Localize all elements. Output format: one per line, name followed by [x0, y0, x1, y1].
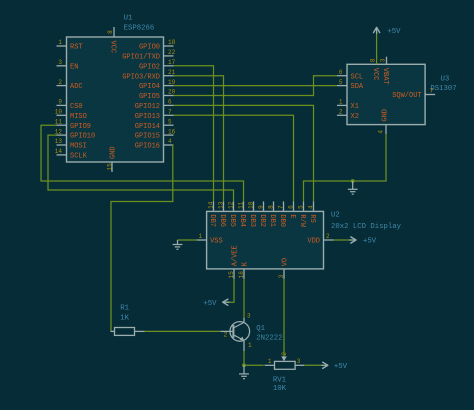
svg-text:RV1: RV1 — [273, 376, 287, 384]
wire GPIO5 to DS1307 SCL — [174, 76, 338, 96]
svg-text:9: 9 — [58, 99, 62, 106]
svg-text:2: 2 — [281, 352, 288, 356]
svg-text:4: 4 — [378, 130, 385, 134]
svg-text:MISO: MISO — [70, 113, 87, 121]
ground at U2 VSS — [173, 240, 183, 249]
svg-text:DB5: DB5 — [228, 214, 236, 227]
wire GPIO16 to R1 — [111, 145, 174, 331]
svg-text:6: 6 — [168, 99, 172, 106]
svg-text:VCC: VCC — [371, 68, 379, 81]
svg-text:SCLK: SCLK — [70, 153, 88, 161]
svg-text:GPIO4: GPIO4 — [139, 83, 160, 91]
svg-text:GPIO2: GPIO2 — [139, 63, 160, 71]
U3 pin 2 X2 — [337, 109, 359, 121]
svg-text:+5V: +5V — [363, 237, 377, 245]
svg-text:R1: R1 — [120, 305, 129, 313]
wire GPIO12 to LCD RS — [174, 105, 314, 201]
U2 pin 15 A/VEE — [228, 245, 240, 279]
U1 pin 18 GPIO0 — [139, 39, 176, 51]
svg-text:R/W: R/W — [298, 214, 306, 227]
svg-text:ADC: ADC — [70, 83, 83, 91]
U3 pin 6 SCL — [337, 69, 363, 81]
U1 pin 14 SCLK — [55, 148, 88, 160]
svg-text:DB3: DB3 — [248, 214, 256, 227]
svg-text:VDD: VDD — [307, 238, 320, 246]
resistor R1 — [111, 328, 145, 336]
svg-text:8: 8 — [107, 30, 114, 34]
U2 reference label — [331, 212, 402, 232]
svg-text:3: 3 — [58, 59, 62, 66]
wire GPIO10 to LCD DB5 — [48, 135, 234, 201]
svg-text:2N2222: 2N2222 — [256, 335, 282, 343]
U1 pin 2 ADC — [57, 79, 83, 91]
svg-text:DB6: DB6 — [218, 214, 226, 227]
svg-text:GPIO3/RXD: GPIO3/RXD — [122, 73, 160, 81]
svg-text:DB7: DB7 — [208, 214, 216, 227]
svg-text:GPIO9: GPIO9 — [70, 123, 91, 131]
svg-text:GND: GND — [110, 146, 118, 159]
U3 pin 5 SDA — [337, 79, 364, 91]
svg-text:13: 13 — [217, 201, 224, 209]
U1 pin 5 GPIO14 — [135, 118, 174, 130]
svg-text:2: 2 — [339, 109, 343, 116]
svg-text:11: 11 — [237, 201, 244, 209]
svg-text:19: 19 — [168, 79, 176, 86]
svg-text:8: 8 — [267, 205, 274, 209]
wire LCD K to Q1 collector — [243, 279, 245, 318]
U3 pin 8 VCC — [370, 58, 380, 80]
wire LCD VO to RV1 wiper — [283, 279, 285, 357]
U3 pin 1 X1 — [337, 99, 359, 111]
potentiometer RV1 — [265, 356, 305, 369]
svg-text:GPIO0: GPIO0 — [139, 44, 160, 52]
U1 pin 16 GPIO15 — [135, 128, 176, 140]
svg-text:13: 13 — [55, 138, 63, 145]
svg-text:3: 3 — [278, 274, 285, 278]
U3 pin 7 SQW/OUT — [392, 88, 435, 100]
svg-text:DB2: DB2 — [258, 214, 266, 227]
svg-text:VSS: VSS — [210, 238, 223, 246]
junction at Q1 emitter node — [242, 363, 246, 367]
svg-text:GPIO14: GPIO14 — [135, 123, 160, 131]
svg-text:1K: 1K — [120, 315, 129, 323]
svg-text:3: 3 — [247, 313, 251, 320]
Q1 value labels — [256, 325, 282, 343]
wire GPIO13 to LCD E — [174, 115, 294, 201]
Q1 pin numbers — [224, 313, 252, 350]
svg-text:GPIO12: GPIO12 — [135, 103, 160, 111]
U1 pin 7 GPIO13 — [135, 109, 174, 121]
U1 pin 17 GPIO2 — [139, 59, 176, 71]
U1 pin 8 VCC — [107, 27, 116, 53]
U1 pin 3 EN — [57, 59, 79, 71]
svg-text:SQW/OUT: SQW/OUT — [392, 92, 421, 100]
svg-text:GPIO16: GPIO16 — [135, 143, 160, 151]
+5V symbol at RV1 pin3 — [321, 362, 347, 371]
svg-text:9: 9 — [257, 205, 264, 209]
U1 pin 20 GPIO5 — [139, 89, 176, 101]
svg-text:+5V: +5V — [203, 300, 217, 308]
svg-text:RST: RST — [70, 44, 83, 52]
U3 reference label — [430, 76, 456, 94]
U2 pin 11 DB4 — [237, 201, 246, 227]
svg-text:CS0: CS0 — [70, 103, 83, 111]
ground on U3 GND / R/W net — [348, 181, 358, 194]
U1 reference label — [124, 15, 155, 33]
svg-text:A/VEE: A/VEE — [232, 245, 240, 266]
U2 pin 5 R/W — [297, 201, 306, 227]
svg-text:2: 2 — [326, 233, 330, 240]
svg-text:U1: U1 — [124, 15, 133, 23]
U2 pin 2 VDD — [307, 233, 333, 246]
svg-text:16: 16 — [238, 271, 245, 279]
svg-text:4: 4 — [168, 138, 172, 145]
wire junction to RV1 pin1 — [244, 364, 264, 366]
RV1 pin numbers — [268, 352, 301, 365]
svg-text:U2: U2 — [331, 212, 340, 220]
svg-text:RS: RS — [308, 214, 316, 222]
svg-text:2: 2 — [58, 79, 62, 86]
transistor Q1 2N2222 — [221, 318, 250, 351]
U2 pin 8 DB1 — [267, 201, 276, 227]
svg-text:4: 4 — [307, 205, 314, 209]
svg-text:10: 10 — [247, 201, 254, 209]
+5V symbol at U2 VDD — [350, 237, 377, 246]
+5V symbol at LCD A/VEE — [203, 299, 229, 308]
svg-text:17: 17 — [168, 59, 176, 66]
svg-text:GPIO1/TXD: GPIO1/TXD — [122, 54, 160, 62]
svg-text:U3: U3 — [441, 76, 450, 84]
wire GPIO3/RXD to LCD DB6 — [174, 76, 224, 202]
svg-text:1: 1 — [248, 342, 252, 349]
svg-text:VCC: VCC — [109, 41, 117, 54]
svg-text:EN: EN — [70, 63, 78, 71]
IC U2 20x2 LCD Display body — [207, 211, 324, 269]
svg-text:8: 8 — [370, 58, 377, 62]
wire GPIO2 to LCD DB7 — [174, 66, 214, 202]
svg-text:GPIO15: GPIO15 — [135, 133, 160, 141]
U1 pin 4 GPIO16 — [135, 138, 174, 150]
svg-text:+5V: +5V — [334, 363, 348, 371]
svg-text:MOSI: MOSI — [70, 143, 87, 151]
svg-text:X2: X2 — [351, 113, 359, 121]
svg-text:21: 21 — [168, 69, 176, 76]
svg-text:3: 3 — [379, 58, 386, 62]
U1 pin 9 CS0 — [57, 99, 83, 111]
U2 pin 9 DB2 — [257, 201, 266, 227]
svg-text:14: 14 — [55, 148, 63, 155]
svg-text:1: 1 — [198, 233, 202, 240]
RV1 value labels — [273, 376, 287, 393]
svg-text:E: E — [288, 214, 296, 218]
svg-text:20x2 LCD Display: 20x2 LCD Display — [331, 223, 402, 231]
svg-text:DB1: DB1 — [268, 214, 276, 227]
svg-text:12: 12 — [55, 128, 63, 135]
wire LCD A/VEE to +5V — [228, 279, 234, 302]
svg-text:6: 6 — [339, 69, 343, 76]
U2 pin 16 K — [238, 261, 250, 279]
U3 pin 3 VBAT — [379, 57, 389, 85]
wire R1 to Q1 base — [145, 330, 221, 332]
svg-text:10K: 10K — [273, 385, 287, 393]
svg-text:DB4: DB4 — [238, 214, 246, 227]
svg-text:12: 12 — [227, 201, 234, 209]
wire GPIO4 to DS1307 SDA — [174, 85, 338, 87]
svg-text:5: 5 — [168, 118, 172, 125]
svg-text:3: 3 — [297, 358, 301, 365]
svg-text:SCL: SCL — [351, 73, 364, 81]
U1 pin 12 GPIO10 — [55, 128, 95, 140]
U1 pin 1 RST — [57, 39, 83, 51]
svg-text:15: 15 — [106, 163, 113, 171]
svg-text:7: 7 — [430, 88, 434, 95]
svg-text:1: 1 — [339, 99, 343, 106]
IC U3 DS1307 body — [347, 64, 425, 124]
svg-text:DS1307: DS1307 — [430, 85, 456, 93]
svg-text:22: 22 — [168, 49, 176, 56]
U2 pin 13 DB6 — [217, 201, 226, 227]
wire U3 VCC to +5V — [376, 33, 378, 65]
svg-text:5: 5 — [297, 205, 304, 209]
U1 pin 15 GND — [106, 146, 117, 172]
svg-text:GND: GND — [382, 109, 390, 122]
svg-text:1: 1 — [268, 358, 272, 365]
svg-text:5: 5 — [339, 79, 343, 86]
U1 pin 22 GPIO1/TXD — [122, 49, 175, 61]
svg-text:7: 7 — [277, 205, 284, 209]
svg-text:14: 14 — [207, 201, 214, 209]
svg-text:GPIO10: GPIO10 — [70, 133, 95, 141]
svg-text:VO: VO — [282, 258, 290, 266]
ground at Q1 emitter — [239, 365, 249, 378]
wire RV1 pin3 to +5V — [304, 364, 322, 366]
junction on ground net at R/W run — [351, 179, 355, 183]
svg-text:VBAT: VBAT — [381, 68, 389, 85]
svg-text:1: 1 — [58, 39, 62, 46]
U1 pin 13 MOSI — [55, 138, 87, 150]
U1 pin 21 GPIO3/RXD — [122, 69, 175, 81]
svg-text:Q1: Q1 — [256, 325, 265, 333]
U2 pin 12 DB5 — [227, 201, 236, 227]
svg-text:GPIO5: GPIO5 — [139, 93, 160, 101]
svg-text:SDA: SDA — [351, 83, 364, 91]
U1 pin 10 MISO — [55, 109, 87, 121]
+5V symbol at U3 VCC — [374, 27, 402, 36]
U2 pin 1 VSS — [197, 233, 223, 245]
svg-text:18: 18 — [168, 39, 176, 46]
svg-text:ESP8266: ESP8266 — [124, 25, 155, 33]
U3 pin 4 GND — [378, 109, 390, 134]
wire U2 VDD to +5V — [334, 239, 351, 241]
wire GPIO9 to LCD DB4 — [41, 125, 244, 201]
U2 pin 14 DB7 — [207, 201, 216, 227]
U1 pin 19 GPIO4 — [139, 79, 176, 91]
U2 pin 10 DB3 — [247, 201, 256, 227]
wire Q1 emitter to junction — [243, 351, 245, 365]
U2 pin 3 VO — [278, 258, 290, 279]
wire U2 VSS to ground — [178, 239, 197, 241]
U1 pin 11 GPIO9 — [55, 118, 91, 130]
svg-text:16: 16 — [168, 128, 176, 135]
U2 pin 6 E — [287, 201, 296, 218]
wire U3 GND to ground and LCD R/W — [385, 125, 387, 134]
svg-text:+5V: +5V — [387, 28, 401, 36]
R1 value labels — [120, 305, 129, 323]
svg-text:10: 10 — [55, 109, 63, 116]
svg-text:15: 15 — [228, 271, 235, 279]
IC U1 ESP8266 body — [67, 37, 164, 162]
svg-text:7: 7 — [168, 109, 172, 116]
svg-text:DB0: DB0 — [278, 214, 286, 227]
svg-text:11: 11 — [55, 118, 63, 125]
svg-text:6: 6 — [287, 205, 294, 209]
svg-text:2: 2 — [224, 332, 228, 339]
svg-text:GPIO13: GPIO13 — [135, 113, 160, 121]
svg-text:X1: X1 — [351, 103, 359, 111]
U2 pin 7 DB0 — [277, 201, 286, 227]
svg-text:20: 20 — [168, 89, 176, 96]
U1 pin 6 GPIO12 — [135, 99, 174, 111]
U2 pin 4 RS — [307, 201, 316, 222]
